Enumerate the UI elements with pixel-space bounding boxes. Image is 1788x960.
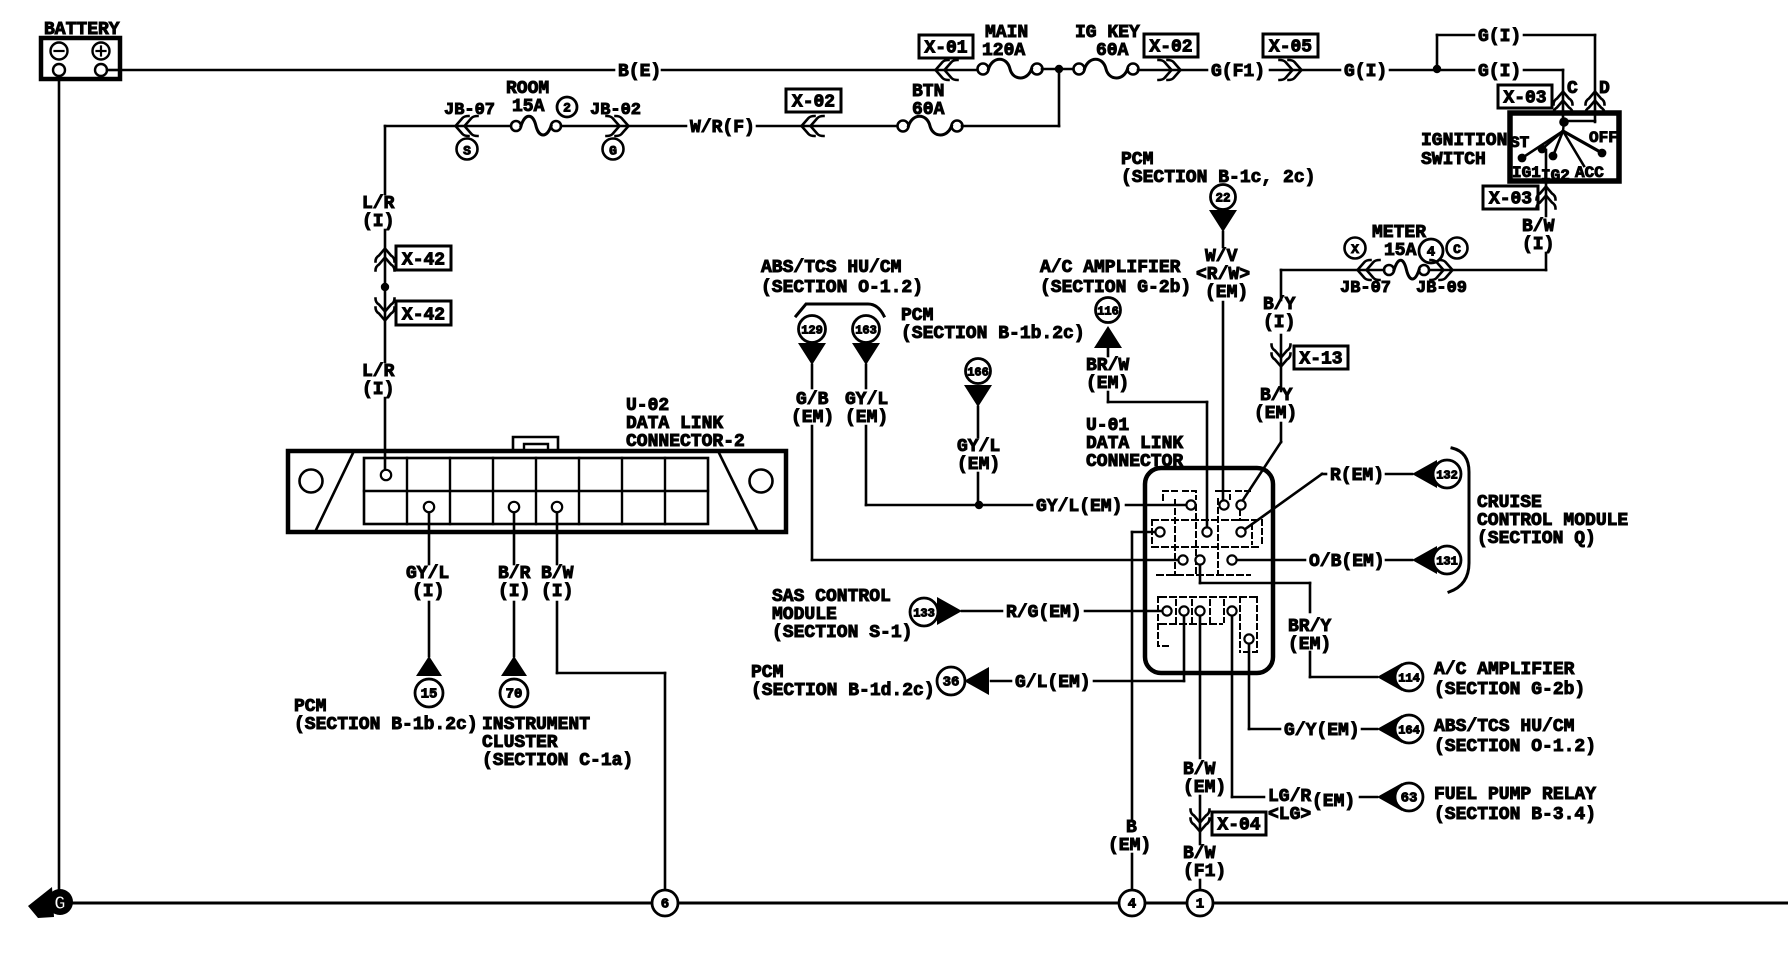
svg-text:166: 166	[967, 366, 989, 380]
wire B/Y diagonal to U-01	[1241, 423, 1281, 503]
connector X-05	[1263, 34, 1318, 80]
svg-text:15A: 15A	[512, 97, 545, 117]
wire W/R(F)	[385, 125, 512, 128]
terminal 166	[964, 359, 992, 408]
svg-text:B/W: B/W	[1183, 760, 1216, 780]
wire G/B to U-01	[812, 426, 1183, 560]
svg-text:GY/L: GY/L	[957, 437, 1000, 457]
label FUEL PUMP RELAY	[1434, 785, 1596, 825]
svg-text:BR/Y: BR/Y	[1288, 617, 1331, 637]
label B (EM)	[1108, 818, 1151, 856]
svg-text:IG KEY: IG KEY	[1075, 23, 1140, 43]
svg-text:JB-07: JB-07	[444, 101, 495, 120]
wire GY/L lower	[977, 473, 980, 505]
terminal 70	[500, 656, 528, 707]
wire G(I) lower branch	[1437, 69, 1563, 72]
connector X-02 room feed	[786, 89, 841, 136]
svg-text:B/R: B/R	[498, 564, 531, 584]
svg-text:DATA LINK: DATA LINK	[626, 414, 723, 434]
wire L/R upper	[384, 126, 387, 194]
wire G/B upper	[811, 365, 814, 388]
svg-text:BR/W: BR/W	[1086, 356, 1129, 376]
grommet S circle	[457, 139, 478, 160]
label B(E)	[618, 62, 661, 82]
wire W/V	[1222, 232, 1225, 247]
connector U-01 cavities (dashed)	[1152, 491, 1262, 652]
wire W/R to X-02	[757, 125, 898, 128]
svg-text:D: D	[1599, 79, 1610, 99]
svg-text:JB-02: JB-02	[590, 101, 641, 120]
connector JB-09	[1416, 260, 1467, 298]
junction node	[1055, 65, 1063, 73]
label U-01	[1086, 416, 1183, 472]
svg-text:PCM: PCM	[751, 663, 783, 683]
svg-text:4: 4	[1427, 245, 1435, 261]
label GY/L (I)	[406, 564, 449, 602]
svg-text:CONTROL MODULE: CONTROL MODULE	[1477, 511, 1628, 531]
svg-text:G/B: G/B	[796, 390, 829, 410]
svg-text:IG1: IG1	[1512, 164, 1541, 182]
svg-text:X-02: X-02	[792, 93, 835, 113]
svg-text:(SECTION S-1): (SECTION S-1)	[772, 623, 912, 643]
wire B/W (I) left	[557, 512, 665, 892]
svg-text:132: 132	[1436, 469, 1458, 483]
svg-text:(EM): (EM)	[1183, 778, 1226, 798]
wire B/W (I)	[1429, 253, 1546, 270]
wire GY/L(EM) into U-01	[979, 504, 1191, 507]
wire G/Y(EM)	[1249, 643, 1377, 729]
svg-text:C: C	[1453, 242, 1461, 257]
wire L/R mid	[384, 230, 387, 283]
svg-text:B/W: B/W	[1522, 217, 1555, 237]
wire W/V to U-01	[1222, 302, 1225, 505]
label LG/R <LG> (EM)	[1268, 787, 1355, 825]
svg-text:G: G	[609, 144, 617, 159]
svg-text:X-03: X-03	[1503, 89, 1546, 109]
label O/B(EM)	[1309, 552, 1385, 572]
label B/Y (I)	[1263, 295, 1296, 333]
svg-text:R/G(EM): R/G(EM)	[1006, 603, 1082, 623]
svg-text:OFF: OFF	[1589, 129, 1618, 147]
wire BR/Y	[1200, 560, 1377, 677]
svg-text:FUEL PUMP RELAY: FUEL PUMP RELAY	[1434, 785, 1596, 805]
svg-text:PCM: PCM	[1121, 150, 1153, 170]
battery	[41, 20, 120, 79]
svg-text:JB-09: JB-09	[1416, 279, 1467, 298]
svg-text:(I): (I)	[362, 380, 394, 400]
svg-text:116: 116	[1097, 305, 1119, 319]
ignition switch contacts	[1518, 117, 1607, 166]
label C	[1567, 79, 1578, 99]
svg-text:B/Y: B/Y	[1260, 386, 1293, 406]
svg-text:X-01: X-01	[924, 39, 967, 59]
label D	[1599, 79, 1610, 99]
U-01 pins	[1155, 500, 1253, 643]
label PCM B-1b top	[901, 306, 1085, 344]
svg-text:X-42: X-42	[402, 251, 445, 271]
U-02 pins	[381, 470, 562, 512]
svg-text:133: 133	[913, 607, 935, 621]
connector JB-07	[444, 101, 495, 136]
label GY/L(EM)	[1036, 497, 1122, 517]
connector U-02 body	[288, 437, 786, 532]
ground terminal 4	[1119, 890, 1145, 916]
svg-text:G/Y(EM): G/Y(EM)	[1284, 721, 1360, 741]
wire G/L(EM)	[991, 611, 1184, 681]
svg-text:INSTRUMENT: INSTRUMENT	[482, 715, 590, 735]
connector X-42 upper	[376, 246, 452, 271]
wire B/W (EM)	[1199, 615, 1202, 758]
wire R(EM)	[1241, 474, 1412, 532]
svg-text:CLUSTER: CLUSTER	[482, 733, 558, 753]
label ABS/TCS right	[1434, 717, 1596, 757]
wire GY/L upper	[865, 365, 868, 388]
fuse METER 15A	[1372, 223, 1429, 279]
svg-text:(I): (I)	[1522, 235, 1554, 255]
svg-text:GY/L: GY/L	[406, 564, 449, 584]
wire ignition switch output B/W	[1545, 150, 1548, 216]
grommet C circle	[1447, 238, 1468, 259]
svg-text:SWITCH: SWITCH	[1421, 150, 1486, 170]
wire fuse MAIN to junction	[1042, 68, 1079, 71]
svg-text:36: 36	[943, 675, 960, 691]
svg-text:X-03: X-03	[1489, 190, 1532, 210]
svg-text:G(I): G(I)	[1478, 62, 1521, 82]
wire BR/W to U-01	[1108, 392, 1207, 532]
grommet 4 circle	[1419, 239, 1443, 263]
svg-text:(SECTION B-1b.2c): (SECTION B-1b.2c)	[294, 715, 478, 735]
svg-text:X-42: X-42	[402, 306, 445, 326]
label W/R(F)	[690, 118, 755, 138]
svg-text:W/V: W/V	[1205, 247, 1238, 267]
label L/R (I) lower	[362, 362, 395, 400]
label A/C AMPLIFIER top	[1040, 258, 1191, 298]
label B/W (I)	[1522, 217, 1555, 255]
grommet G circle	[603, 139, 624, 160]
ground symbol G	[28, 887, 73, 918]
svg-text:SAS CONTROL: SAS CONTROL	[772, 587, 891, 607]
terminal C chevron	[1554, 70, 1573, 122]
wire GY/L from 166	[977, 407, 980, 437]
svg-text:(SECTION B-1b.2c): (SECTION B-1b.2c)	[901, 324, 1085, 344]
svg-text:L/R: L/R	[362, 362, 395, 382]
svg-text:163: 163	[855, 324, 877, 338]
label R/G(EM)	[1006, 603, 1082, 623]
wire BR/W	[1107, 348, 1110, 356]
label GY/L (EM) mid	[957, 437, 1000, 475]
svg-text:ABS/TCS HU/CM: ABS/TCS HU/CM	[1434, 717, 1574, 737]
wire R/G(EM)	[962, 610, 1167, 613]
connector X-42 lower	[376, 299, 452, 326]
svg-text:B/W: B/W	[541, 564, 574, 584]
terminal 116	[1094, 298, 1122, 349]
svg-text:(EM): (EM)	[1205, 283, 1248, 303]
svg-text:(EM): (EM)	[1254, 404, 1297, 424]
svg-text:B/Y: B/Y	[1263, 295, 1296, 315]
label B/Y (EM)	[1254, 386, 1297, 424]
svg-text:DATA LINK: DATA LINK	[1086, 434, 1183, 454]
svg-text:(I): (I)	[498, 582, 530, 602]
connector X-02 (ignition feed)	[1144, 34, 1198, 80]
terminal 114	[1377, 663, 1423, 691]
ignition switch box U ignition	[1510, 113, 1619, 181]
svg-text:(EM): (EM)	[1288, 635, 1331, 655]
label BR/Y (EM)	[1288, 617, 1331, 655]
svg-text:B: B	[1126, 818, 1137, 838]
label G/L(EM)	[1015, 673, 1091, 693]
svg-text:ABS/TCS HU/CM: ABS/TCS HU/CM	[761, 258, 901, 278]
svg-text:(I): (I)	[362, 212, 394, 232]
connector X-03 lower	[1483, 186, 1556, 210]
svg-text:(SECTION O-1.2): (SECTION O-1.2)	[761, 278, 923, 298]
connector U-01 body	[1145, 468, 1273, 673]
terminal 22	[1209, 185, 1237, 233]
svg-text:X-02: X-02	[1149, 38, 1192, 58]
wire O/B(EM)	[1236, 559, 1412, 562]
svg-text:60A: 60A	[912, 100, 945, 120]
ground terminal 1	[1187, 890, 1213, 916]
wire GY/L to junction	[866, 426, 975, 505]
terminal 132	[1412, 460, 1461, 488]
svg-text:<R/W>: <R/W>	[1196, 265, 1250, 285]
fuse MAIN 120A	[978, 23, 1043, 78]
label G(F1)	[1211, 62, 1265, 82]
svg-text:129: 129	[801, 324, 823, 338]
wire B(E)	[120, 69, 978, 72]
svg-text:BTN: BTN	[912, 82, 944, 102]
connector JB-07 meter	[1340, 260, 1391, 298]
svg-text:R(EM): R(EM)	[1330, 466, 1384, 486]
bracket over terminals	[796, 304, 884, 316]
wire GY/L (I)	[428, 512, 431, 656]
svg-text:MODULE: MODULE	[772, 605, 837, 625]
svg-text:(I): (I)	[1263, 313, 1295, 333]
svg-text:X-05: X-05	[1269, 38, 1312, 58]
svg-text:B/W: B/W	[1183, 844, 1216, 864]
svg-text:W/R(F): W/R(F)	[690, 118, 755, 138]
label BR/W (EM)	[1086, 356, 1129, 394]
svg-text:X-04: X-04	[1217, 816, 1260, 836]
svg-text:164: 164	[1398, 724, 1420, 738]
wire ROOM to JB-02	[561, 125, 686, 128]
svg-text:(I): (I)	[412, 582, 444, 602]
label G(I)	[1344, 62, 1387, 82]
svg-text:2: 2	[563, 101, 571, 116]
svg-text:<LG>: <LG>	[1268, 805, 1311, 825]
svg-text:1: 1	[1196, 897, 1204, 913]
svg-text:(F1): (F1)	[1183, 862, 1226, 882]
wire G(I) upper branch	[1437, 35, 1595, 69]
svg-text:15: 15	[421, 687, 438, 703]
label INSTRUMENT CLUSTER	[482, 715, 633, 771]
svg-text:114: 114	[1398, 672, 1420, 686]
svg-text:JB-07: JB-07	[1340, 279, 1391, 298]
svg-text:G: G	[54, 893, 65, 915]
wire B/Y	[1280, 335, 1283, 391]
svg-text:15A: 15A	[1384, 241, 1417, 261]
label GY/L (EM)	[845, 390, 888, 428]
svg-text:(EM): (EM)	[1312, 792, 1355, 812]
svg-text:(EM): (EM)	[1108, 836, 1151, 856]
svg-text:G(I): G(I)	[1344, 62, 1387, 82]
ground line	[72, 902, 1788, 905]
svg-text:(SECTION Q): (SECTION Q)	[1477, 529, 1596, 549]
label PCM B-1b bottom	[294, 697, 478, 735]
terminal 163	[852, 316, 880, 366]
connector X-01	[919, 35, 973, 80]
label A/C AMPLIFIER right	[1434, 660, 1585, 700]
svg-text:METER: METER	[1372, 223, 1426, 243]
svg-text:A/C AMPLIFIER: A/C AMPLIFIER	[1040, 258, 1181, 278]
terminal 15	[415, 656, 443, 707]
ignition switch labels	[1421, 129, 1618, 185]
label U-02	[626, 396, 745, 452]
wire B/W at X-04	[1199, 796, 1202, 844]
terminal 133	[910, 597, 962, 626]
svg-text:PCM: PCM	[901, 306, 933, 326]
fuse IG KEY 60A	[1074, 23, 1141, 78]
label B/W (EM)	[1183, 760, 1226, 798]
svg-text:(SECTION G-2b): (SECTION G-2b)	[1040, 278, 1191, 298]
label R(EM)	[1330, 466, 1384, 486]
label B/R (I)	[498, 564, 531, 602]
label SAS CONTROL MODULE	[772, 587, 912, 643]
connector X-13	[1272, 345, 1349, 370]
junction node L/R	[381, 283, 389, 362]
wire G(F1)	[1270, 69, 1340, 72]
svg-text:(SECTION C-1a): (SECTION C-1a)	[482, 751, 633, 771]
grommet 2 circle	[557, 97, 577, 117]
svg-text:ROOM: ROOM	[506, 79, 549, 99]
svg-text:(SECTION G-2b): (SECTION G-2b)	[1434, 680, 1585, 700]
wire B(EM) to ground circle	[1131, 854, 1134, 892]
svg-text:B(E): B(E)	[618, 62, 661, 82]
label PCM B-1d	[751, 663, 935, 701]
svg-text:U-01: U-01	[1086, 416, 1129, 436]
ground terminal 6	[652, 890, 678, 916]
terminal D chevron	[1586, 35, 1605, 122]
wire meter fuse to B/Y	[1281, 270, 1384, 300]
svg-text:60A: 60A	[1096, 41, 1129, 61]
terminal 164	[1377, 715, 1423, 743]
label G/B (EM)	[791, 390, 834, 428]
wire to X-02	[1138, 69, 1207, 72]
label B/W (I) left	[541, 564, 574, 602]
svg-text:X: X	[1351, 242, 1359, 257]
connector X-04	[1191, 810, 1267, 836]
svg-text:(SECTION B-1d.2c): (SECTION B-1d.2c)	[751, 681, 935, 701]
wire B/W to ground circle	[1199, 880, 1202, 892]
svg-text:6: 6	[661, 897, 669, 913]
wire B(EM)	[1132, 532, 1156, 820]
svg-text:GY/L: GY/L	[845, 390, 888, 410]
svg-text:O/B(EM): O/B(EM)	[1309, 552, 1385, 572]
svg-text:C: C	[1567, 79, 1578, 99]
terminal 129	[798, 316, 826, 366]
connector X-03 upper	[1498, 85, 1552, 109]
svg-text:X-13: X-13	[1299, 350, 1342, 370]
bracket cruise control	[1449, 448, 1469, 592]
terminal 131	[1412, 546, 1461, 574]
svg-text:4: 4	[1128, 897, 1136, 913]
svg-text:ACC: ACC	[1575, 164, 1604, 182]
svg-text:G/L(EM): G/L(EM)	[1015, 673, 1091, 693]
svg-text:U-02: U-02	[626, 396, 669, 416]
fuse ROOM 15A	[506, 79, 561, 135]
svg-text:S: S	[463, 144, 471, 159]
svg-text:GY/L(EM): GY/L(EM)	[1036, 497, 1122, 517]
wire G(I)	[1390, 69, 1433, 72]
label W/V <R/W> (EM)	[1196, 247, 1250, 303]
wire L/R to U-02 pin	[384, 398, 387, 472]
wire LG/R	[1232, 615, 1377, 797]
svg-text:ST: ST	[1510, 134, 1530, 152]
svg-text:(I): (I)	[541, 582, 573, 602]
svg-text:120A: 120A	[982, 41, 1025, 61]
junction node GY/L	[975, 501, 983, 509]
svg-text:G(I): G(I)	[1478, 27, 1521, 47]
terminal 63	[1377, 783, 1423, 811]
svg-text:A/C AMPLIFIER: A/C AMPLIFIER	[1434, 660, 1575, 680]
svg-text:PCM: PCM	[294, 697, 326, 717]
svg-text:70: 70	[506, 687, 523, 703]
junction node G(I)	[1433, 65, 1441, 73]
svg-text:MAIN: MAIN	[985, 23, 1028, 43]
svg-text:22: 22	[1215, 192, 1230, 206]
wire B/R (I)	[513, 512, 516, 656]
svg-text:131: 131	[1436, 555, 1458, 569]
label B/W (F1)	[1183, 844, 1226, 882]
label G(I) upper	[1478, 27, 1521, 47]
label CRUISE CONTROL MODULE	[1477, 493, 1628, 549]
label G(I) lower	[1478, 62, 1521, 82]
wire battery negative to ground	[58, 79, 61, 889]
connector JB-02	[590, 101, 641, 136]
svg-text:63: 63	[1401, 791, 1418, 807]
label G/Y(EM)	[1284, 721, 1360, 741]
label PCM B-1c	[1121, 150, 1315, 188]
grommet X circle	[1345, 238, 1366, 259]
svg-text:(SECTION B-3.4): (SECTION B-3.4)	[1434, 805, 1596, 825]
svg-text:L/R: L/R	[362, 194, 395, 214]
svg-text:(SECTION O-1.2): (SECTION O-1.2)	[1434, 737, 1596, 757]
wire BTN to junction	[962, 73, 1059, 126]
label L/R (I) upper	[362, 194, 395, 232]
svg-text:CRUISE: CRUISE	[1477, 493, 1542, 513]
svg-text:IGNITION: IGNITION	[1421, 131, 1507, 151]
label ABS/TCS HU/CM	[761, 258, 923, 298]
svg-text:G(F1): G(F1)	[1211, 62, 1265, 82]
svg-text:LG/R: LG/R	[1268, 787, 1311, 807]
terminal 36	[937, 667, 989, 695]
fuse BTN 60A	[898, 82, 963, 135]
